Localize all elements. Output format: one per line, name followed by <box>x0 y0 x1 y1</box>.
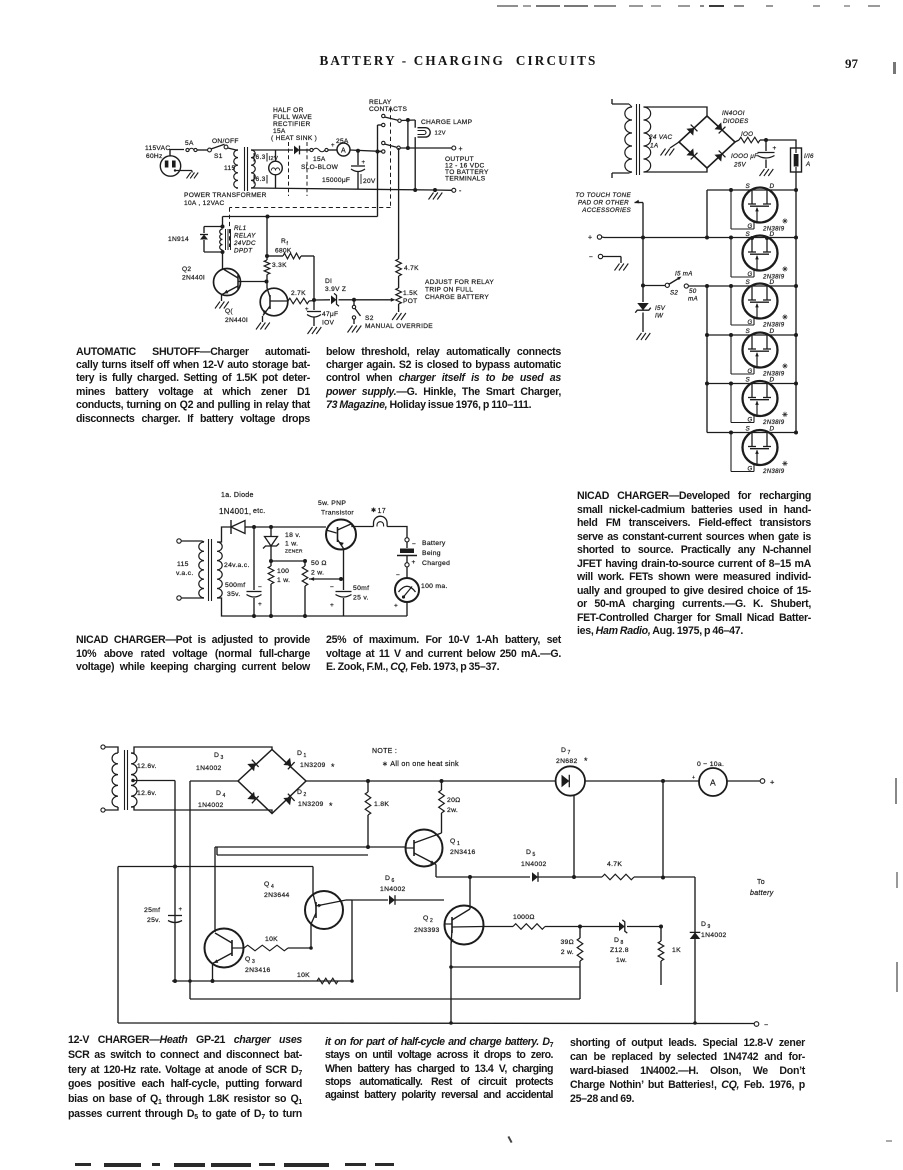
svg-text:25mf: 25mf <box>144 907 160 914</box>
svg-text:4.7K: 4.7K <box>607 861 622 868</box>
zener diode 15V 1W <box>635 286 666 333</box>
svg-text:S2: S2 <box>670 290 678 297</box>
heat sink dashed boundary <box>289 142 308 196</box>
svg-text:✱: ✱ <box>371 507 376 514</box>
svg-text:✳: ✳ <box>782 314 788 322</box>
svg-text:battery: battery <box>750 890 774 897</box>
svg-text:5A: 5A <box>185 140 194 147</box>
svg-text:+: + <box>412 559 416 566</box>
wire right bus <box>795 172 797 433</box>
diode 1N914 <box>168 227 225 255</box>
svg-text:Q(: Q( <box>225 308 233 315</box>
svg-text:D: D <box>770 328 775 335</box>
svg-text:2N440I: 2N440I <box>182 275 205 282</box>
svg-text:12.6v.: 12.6v. <box>137 763 157 770</box>
svg-text:I2V: I2V <box>269 156 279 162</box>
svg-text:50mf: 50mf <box>353 585 369 592</box>
transistor Q2 2N3393 <box>414 906 484 945</box>
wire <box>271 526 326 528</box>
svg-text:D: D <box>216 790 221 797</box>
svg-text:7: 7 <box>568 750 571 756</box>
svg-text:mA: mA <box>688 296 698 303</box>
zener diode 18V 1W <box>263 527 303 563</box>
svg-text:ADJUST FOR RELAY: ADJUST FOR RELAY <box>425 279 494 286</box>
wire <box>644 168 708 172</box>
wire accessories tap <box>642 203 644 238</box>
svg-text:3: 3 <box>252 959 255 965</box>
svg-text:D: D <box>770 231 775 238</box>
resistor 100 <box>735 131 768 143</box>
svg-text:0 − 10a.: 0 − 10a. <box>697 761 724 768</box>
svg-text:1N4002: 1N4002 <box>521 861 547 868</box>
svg-text:MANUAL OVERRIDE: MANUAL OVERRIDE <box>365 323 433 330</box>
svg-text:12.6v.: 12.6v. <box>137 790 157 797</box>
transistor Q1 2N4401 <box>225 288 288 324</box>
svg-text:2N3416: 2N3416 <box>245 967 271 974</box>
svg-text:✳: ✳ <box>782 460 788 468</box>
svg-text:8: 8 <box>621 940 624 946</box>
svg-text:1N914: 1N914 <box>168 236 189 243</box>
svg-text:G: G <box>748 467 753 473</box>
capacitor 25mf 25v <box>144 907 183 924</box>
label D3 1N4002 <box>196 752 224 772</box>
svg-text:R: R <box>281 238 286 245</box>
wire <box>694 877 696 1023</box>
label 6.3 winding <box>254 153 267 162</box>
resistor 2.7K <box>288 290 309 304</box>
wire bus <box>172 980 352 982</box>
svg-text:2N3416: 2N3416 <box>450 849 476 856</box>
svg-text:etc.: etc. <box>253 508 265 515</box>
svg-text:20Ω: 20Ω <box>447 797 461 804</box>
wire main positive rail <box>306 780 556 782</box>
meter 100ma <box>394 572 448 610</box>
wire plus rail <box>604 237 796 239</box>
svg-text:IOV: IOV <box>322 320 335 327</box>
svg-text:RELAY: RELAY <box>369 99 392 106</box>
svg-text:10K: 10K <box>265 936 278 943</box>
wire left chain bus <box>706 190 708 238</box>
wire <box>217 527 231 542</box>
circuit 3: nicad charger with pot <box>176 492 450 618</box>
svg-text:+: + <box>331 143 335 149</box>
transistor Q2 2N4401 <box>182 266 267 296</box>
transformer T2 24VAC <box>625 104 673 175</box>
capacitor 500mf 35v <box>225 527 262 618</box>
svg-text:S: S <box>746 328 751 335</box>
wire <box>642 238 644 286</box>
svg-text:1N4002: 1N4002 <box>701 932 727 939</box>
svg-text:2N440I: 2N440I <box>225 317 248 324</box>
diode D5 1N4002 <box>521 849 574 882</box>
svg-text:CHARGE BATTERY: CHARGE BATTERY <box>425 294 489 301</box>
svg-text:15A: 15A <box>313 156 326 163</box>
charge lamp 12V <box>415 119 472 137</box>
wire <box>387 527 407 538</box>
svg-text:1N3209: 1N3209 <box>298 801 324 808</box>
resistor 10K lower <box>297 972 338 984</box>
svg-text:Q: Q <box>245 956 251 963</box>
svg-text:2.7K: 2.7K <box>291 290 306 297</box>
page title <box>7 53 903 69</box>
svg-text:*: * <box>331 762 335 772</box>
svg-text:IW: IW <box>655 313 664 320</box>
svg-text:D: D <box>701 921 706 928</box>
svg-text:+: + <box>459 146 463 153</box>
fuse 5A <box>185 140 197 152</box>
svg-text:DI: DI <box>325 278 332 285</box>
svg-text:S2: S2 <box>365 315 374 322</box>
transistor Q5 5W PNP <box>318 500 356 550</box>
wire <box>182 540 203 542</box>
svg-text:15A: 15A <box>273 128 286 135</box>
svg-text:2N682: 2N682 <box>556 758 578 765</box>
diode 1N4001 <box>219 492 265 534</box>
svg-text:D: D <box>770 377 775 384</box>
pot wiper wire <box>309 578 341 580</box>
svg-text:ZENER: ZENER <box>285 549 303 555</box>
diode D9 1N4002 <box>690 921 727 939</box>
wire Q2 emitter <box>450 945 452 1024</box>
svg-text:10A , 12VAC: 10A , 12VAC <box>184 200 225 207</box>
svg-text:G: G <box>748 272 753 278</box>
output plus terminal <box>760 779 765 784</box>
label 115VAC 60Hz <box>145 145 170 160</box>
svg-text:S: S <box>746 377 751 384</box>
svg-text:115: 115 <box>177 561 189 568</box>
svg-text:+: + <box>330 602 334 609</box>
svg-text:D: D <box>614 937 619 944</box>
svg-text:9: 9 <box>708 924 711 930</box>
svg-text:S: S <box>746 231 751 238</box>
svg-text:100: 100 <box>277 568 289 575</box>
battery being charged <box>397 538 450 567</box>
AC input terminals <box>101 745 105 812</box>
svg-text:1N4002: 1N4002 <box>198 802 224 809</box>
svg-text:I/I6: I/I6 <box>804 153 814 160</box>
bridge rectifier 1N4001 diodes <box>679 110 749 168</box>
svg-text:v.a.c.: v.a.c. <box>176 570 194 577</box>
SCR D7 2N682 <box>556 747 588 796</box>
svg-text:3: 3 <box>221 755 224 761</box>
svg-text:S: S <box>746 279 751 286</box>
svg-text:12V: 12V <box>435 131 446 137</box>
svg-text:50: 50 <box>689 288 697 295</box>
svg-text:+: + <box>588 235 592 242</box>
svg-text:1: 1 <box>304 753 307 759</box>
svg-text:G: G <box>748 369 753 375</box>
svg-text:1N4002: 1N4002 <box>196 765 222 772</box>
svg-text:2 w.: 2 w. <box>561 949 574 956</box>
svg-text:G: G <box>748 418 753 424</box>
diode D6 1N4002 <box>352 875 444 905</box>
wire <box>309 300 314 303</box>
wire to relay circuit <box>377 152 379 217</box>
svg-text:DPDT: DPDT <box>234 248 253 255</box>
svg-text:−: − <box>412 541 416 548</box>
resistor 100 1W <box>268 561 290 618</box>
capacitor 15000uF 20V <box>322 151 376 189</box>
svg-text:1 w.: 1 w. <box>277 577 290 584</box>
wire Q3 emitter <box>212 964 214 982</box>
relay contact 2 <box>382 141 401 149</box>
circuit 2: FET nicad charger <box>575 99 814 475</box>
svg-text:Being: Being <box>422 550 441 557</box>
resistor 4.7K <box>574 861 695 880</box>
svg-text:D: D <box>770 279 775 286</box>
wire Q4 collector <box>312 867 314 894</box>
input terminals 115vac <box>177 539 181 600</box>
wire <box>354 299 393 301</box>
wire <box>401 119 415 122</box>
relay contact 1 <box>382 114 402 122</box>
ammeter 0-10a <box>692 761 727 796</box>
wire <box>190 998 580 1000</box>
zener D1 3.9V <box>314 278 356 306</box>
wire top rail <box>253 149 293 151</box>
relay RL1 coil <box>220 225 256 255</box>
svg-text:SLO-BLOW: SLO-BLOW <box>301 164 339 171</box>
svg-text:1N4001,: 1N4001, <box>219 507 251 516</box>
svg-text:A: A <box>341 147 346 154</box>
svg-text:S: S <box>746 426 751 433</box>
scan artifact dashes bottom <box>75 1163 91 1166</box>
ground at bridge <box>661 142 680 156</box>
svg-text:D: D <box>297 789 302 796</box>
svg-text:D: D <box>385 875 390 882</box>
wire <box>266 275 268 289</box>
wire main rail <box>350 150 383 152</box>
svg-text:S: S <box>746 183 751 190</box>
ground at plug <box>187 173 199 179</box>
svg-text:TRIP ON FULL: TRIP ON FULL <box>425 287 473 294</box>
svg-text:5: 5 <box>533 852 536 858</box>
page number <box>845 56 858 72</box>
svg-text:1: 1 <box>457 841 460 847</box>
wire <box>313 256 315 300</box>
svg-text:2: 2 <box>304 792 307 798</box>
svg-text:5w. PNP: 5w. PNP <box>318 500 346 507</box>
ground at 47uF <box>308 327 322 334</box>
svg-text:24 VAC: 24 VAC <box>648 134 673 141</box>
wire <box>300 149 310 151</box>
wire Q1 emitter <box>435 865 437 878</box>
ground at pot <box>392 313 406 320</box>
svg-text:2w.: 2w. <box>447 807 458 814</box>
ground at minus input <box>615 264 629 271</box>
svg-text:6.3: 6.3 <box>256 176 266 183</box>
resistor 1K <box>658 927 681 986</box>
svg-text:D: D <box>297 750 302 757</box>
svg-text:1N4002: 1N4002 <box>380 886 406 893</box>
JFET Q3 2N3819 <box>707 279 798 329</box>
svg-text:+: + <box>773 145 777 152</box>
svg-text:1a. Diode: 1a. Diode <box>221 492 254 499</box>
svg-text:RECTIFIER: RECTIFIER <box>273 121 311 128</box>
svg-text:2N38I9: 2N38I9 <box>762 468 785 475</box>
wire <box>190 780 238 782</box>
label D1 1N3209 <box>297 750 335 772</box>
svg-text:IN4OOI: IN4OOI <box>722 110 745 117</box>
resistor 10K upper <box>244 936 311 951</box>
svg-text:IOOO μF: IOOO μF <box>731 153 759 160</box>
wire <box>265 280 269 284</box>
resistor 3.3K <box>264 260 287 275</box>
capacitor 47uF 10V <box>305 300 338 327</box>
svg-text:A: A <box>710 778 716 788</box>
svg-text:A: A <box>805 161 810 168</box>
svg-text:TERMINALS: TERMINALS <box>445 176 486 183</box>
wire lamp to minus rail <box>414 137 416 190</box>
wire D5 line <box>436 876 530 878</box>
wire Q2 collector <box>469 877 471 909</box>
transformer T1 power transformer <box>224 147 255 191</box>
label adjust for relay trip <box>425 279 494 301</box>
svg-text:+: + <box>258 601 262 608</box>
svg-text:To: To <box>757 879 765 886</box>
wire <box>214 847 216 932</box>
wire <box>689 285 707 287</box>
wire <box>228 148 236 150</box>
label power transformer <box>184 192 267 207</box>
svg-text:Q2: Q2 <box>182 266 191 273</box>
wire <box>310 924 312 948</box>
transistor Q4 2N3644 <box>264 881 343 929</box>
svg-text:*: * <box>584 756 588 766</box>
svg-text:1A: 1A <box>650 143 658 150</box>
transformer T3 <box>199 539 222 601</box>
pilot lamp 12V <box>269 150 283 188</box>
svg-text:18 v.: 18 v. <box>285 532 301 539</box>
AC input leads <box>612 99 629 178</box>
svg-text:−: − <box>396 572 400 579</box>
svg-text:1000Ω: 1000Ω <box>513 914 535 921</box>
svg-text:I5 mA: I5 mA <box>675 271 693 278</box>
svg-text:1.8K: 1.8K <box>374 801 389 808</box>
resistor Rf 680K <box>267 238 314 259</box>
ground at 1000uF <box>760 169 774 176</box>
output minus terminal <box>754 1022 759 1027</box>
wire outer box <box>117 867 119 1024</box>
svg-text:G: G <box>748 320 753 326</box>
svg-text:35v.: 35v. <box>227 591 241 598</box>
svg-text:NOTE :: NOTE : <box>372 748 397 755</box>
transformer T4 12.6V <box>112 750 157 810</box>
svg-text:Q: Q <box>423 915 429 922</box>
resistor 1000 ohm <box>484 914 583 929</box>
svg-text:POWER TRANSFORMER: POWER TRANSFORMER <box>184 192 267 199</box>
svg-text:✳: ✳ <box>782 411 788 419</box>
wire bottom rail <box>253 188 435 190</box>
svg-text:17: 17 <box>378 508 386 515</box>
svg-text:50 Ω: 50 Ω <box>311 560 327 567</box>
svg-text:POT: POT <box>403 298 417 305</box>
wire <box>407 120 409 148</box>
svg-text:+: + <box>179 907 183 913</box>
ground at Q2 emitter <box>215 295 229 309</box>
svg-text:500mf: 500mf <box>225 582 245 589</box>
svg-text:✳: ✳ <box>782 363 788 371</box>
circuit 4: 12-V charger Heath GP-21 <box>101 745 775 1029</box>
svg-text:2 w.: 2 w. <box>311 570 324 577</box>
switch S2 manual override <box>352 300 433 330</box>
svg-text:Battery: Battery <box>422 540 446 547</box>
label relay contacts <box>369 99 407 113</box>
scan artifact dashes top <box>497 5 518 7</box>
wire <box>131 747 272 753</box>
svg-text:RELAY: RELAY <box>234 233 256 240</box>
wire <box>766 140 796 148</box>
svg-text:G: G <box>748 224 753 230</box>
JFET Q6 2N3819 <box>707 426 798 476</box>
svg-text:D: D <box>214 752 219 759</box>
svg-text:ACCESSORIES: ACCESSORIES <box>581 207 631 214</box>
JFET Q4 2N3819 <box>707 328 798 378</box>
JFET Q2 2N3819 <box>731 231 788 281</box>
svg-text:1w.: 1w. <box>616 957 627 964</box>
wire <box>222 252 224 269</box>
svg-text:f: f <box>287 241 289 247</box>
svg-text:24VDC: 24VDC <box>233 240 256 247</box>
svg-text:HALF OR: HALF OR <box>273 107 304 114</box>
label 115 vac <box>176 561 194 577</box>
svg-text:+: + <box>770 778 775 787</box>
wire Q1 base line <box>215 846 406 848</box>
label output 12-16 VDC <box>445 156 489 183</box>
svg-text:Z12.8: Z12.8 <box>610 947 629 954</box>
svg-text:25 v.: 25 v. <box>353 595 369 602</box>
fuse 15A slo-blow <box>301 148 339 171</box>
wire <box>352 524 374 527</box>
potentiometer 1.5K <box>391 288 418 312</box>
output minus terminal <box>452 188 456 192</box>
JFET Q1 2N3819 <box>707 183 798 233</box>
svg-text:DIODES: DIODES <box>723 118 749 125</box>
label to touch tone pad <box>575 192 631 214</box>
svg-text:39Ω: 39Ω <box>560 939 574 946</box>
wire <box>662 781 664 878</box>
svg-text:25A: 25A <box>336 138 349 145</box>
resistor 20 ohm 2W <box>439 781 461 833</box>
wire center tap <box>131 779 135 783</box>
svg-text:−: − <box>258 584 262 591</box>
wire <box>222 217 224 227</box>
svg-text:6.3: 6.3 <box>256 154 266 161</box>
JFET Q5 2N3819 <box>707 377 798 427</box>
svg-text:47μF: 47μF <box>322 311 338 318</box>
circuit 1: automatic shutoff charger <box>145 99 494 334</box>
svg-text:15000μF: 15000μF <box>322 177 350 184</box>
wire <box>573 795 575 877</box>
resistor 1.8K <box>365 781 389 847</box>
svg-text:1K: 1K <box>672 947 681 954</box>
potentiometer 50 ohm 2W <box>302 560 327 618</box>
svg-text:−: − <box>764 1022 768 1029</box>
svg-text:10K: 10K <box>297 972 310 979</box>
svg-text:IOO: IOO <box>741 131 753 138</box>
svg-text:20V: 20V <box>363 178 376 185</box>
dashed relay actuation link <box>230 108 391 247</box>
svg-text:*: * <box>329 801 333 811</box>
svg-text:PAD OR OTHER: PAD OR OTHER <box>578 200 629 207</box>
svg-text:TO TOUCH TONE: TO TOUCH TONE <box>575 192 631 199</box>
wire <box>328 149 337 151</box>
svg-text:( HEAT SINK ): ( HEAT SINK ) <box>271 135 317 142</box>
svg-text:✳: ✳ <box>782 266 788 274</box>
wire <box>341 900 346 901</box>
svg-text:24v.a.c.: 24v.a.c. <box>224 562 250 569</box>
wire <box>271 560 305 562</box>
